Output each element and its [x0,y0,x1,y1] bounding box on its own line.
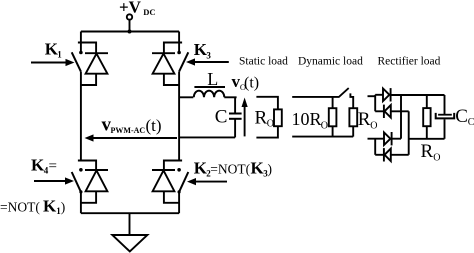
svg-text:3: 3 [206,51,211,61]
switch K4 blade [72,172,81,192]
svg-text:R: R [255,108,268,129]
wire K1 bottom bracket [81,74,96,85]
svg-text:(t): (t) [244,75,259,92]
svg-text:Rectifier load: Rectifier load [378,56,441,68]
resistor 10RO [329,108,337,126]
wire dynamic load top rail [292,97,339,108]
DC supply terminal [127,14,132,19]
svg-text:1: 1 [57,50,62,60]
wire rectifier AC2 stub [368,138,385,140]
wire rectifier AC2 vertical [374,139,376,155]
node K2 lower contact [178,190,181,193]
wire inductor to C node [224,96,236,98]
label =NOT(K1) [0,197,65,217]
resistor RO dynamic [349,108,357,126]
arrow K3 gate [186,58,229,65]
diode D3 [384,132,401,145]
switch K1 blade [72,52,81,71]
wire ground stub [129,213,131,235]
capacitor C [229,97,242,137]
arrow vO voltage [242,98,248,137]
wire terminal to top rail [129,20,131,32]
wire K2 top bracket [164,161,182,171]
wire rectifier positive rail [391,94,445,96]
diode K3 antiparallel [152,53,175,73]
svg-text:=NOT(: =NOT( [0,200,40,215]
diode K1 antiparallel [85,53,108,73]
wire K3 bottom bracket [164,74,179,85]
wire D2-D4 anode drop [408,111,410,155]
svg-text:C: C [468,117,474,128]
svg-text:O: O [433,153,440,164]
svg-text:R: R [358,109,371,130]
capacitor CC [436,95,455,139]
arrow K2 gate [187,178,227,185]
inductor L [194,91,225,98]
wire top rail [81,31,179,33]
wire bottom rail [81,212,179,214]
wire rectifier AC1 vertical [374,95,376,112]
resistor RO rectifier [423,95,430,139]
svg-text:O: O [267,119,274,130]
wire K4 bottom bracket [81,191,96,203]
label CC [455,106,474,128]
svg-text:PWM-AC: PWM-AC [111,126,146,135]
wire K4 top bracket [78,161,96,171]
label K2=NOT(K3) [194,159,272,179]
node top rail center [128,30,132,34]
inductor L core bar [194,86,225,88]
label RO rectifier [421,141,441,164]
label vO(t) [232,72,260,92]
switch K3 blade [179,52,188,71]
label 10RO [292,109,329,132]
node K1 upper contact [79,51,83,55]
wire static load top stub [256,97,278,110]
arrow K1 gate [31,59,75,66]
node K4 lower contact [79,190,82,193]
wire C return to right leg [179,136,235,138]
wire left leg upper [80,32,82,53]
label +VDC [119,0,156,17]
wire dynamic load bottom rail [292,126,353,136]
svg-text:R: R [421,141,434,162]
resistor RO static [274,109,282,126]
node K3 upper contact [177,51,181,55]
svg-text:(t): (t) [146,116,162,135]
arrow K4 gate [34,177,74,184]
wire static load bottom stub [256,126,278,137]
svg-text:Static load: Static load [239,56,288,68]
wire rectifier negative rail [409,138,445,140]
label K1 [45,40,63,60]
diode D4 [375,148,409,161]
switch dynamic load blade [339,88,348,97]
diode K2 antiparallel [152,170,175,191]
diode K4 antiparallel [85,170,108,191]
svg-text:): ) [61,200,66,215]
svg-text:=: = [49,159,57,175]
label K4= [31,156,57,176]
label vPWM-AC(t) [102,115,162,136]
svg-text:O: O [321,121,328,132]
ground [112,235,147,252]
svg-text:C: C [215,107,228,128]
wire right leg middle [178,72,180,161]
arrow vPWM-AC voltage [85,134,178,141]
wire rectifier AC1 stub [368,95,376,97]
label RO static [255,108,275,130]
wire midpoint to inductor [179,96,193,98]
wire right leg lower [178,192,180,213]
svg-text:C: C [455,106,468,127]
svg-text:K: K [43,197,57,216]
label K3 [194,40,212,61]
wire left leg middle [80,72,82,161]
wire left leg lower [80,192,82,213]
svg-text:10R: 10R [292,109,322,129]
node K2 upper contact [177,168,181,172]
switch K2 blade [179,172,188,192]
svg-text:DC: DC [143,7,155,17]
label RO dynamic [358,109,378,132]
svg-text:L: L [207,69,218,89]
wire K3 top bracket [164,43,182,54]
svg-text:Dynamic load: Dynamic load [298,56,363,68]
svg-text:): ) [268,162,273,177]
wire right leg upper [178,32,180,53]
svg-text:=NOT(: =NOT( [210,162,250,177]
wire K2 bottom bracket [164,191,179,203]
svg-text:O: O [370,121,377,132]
wire D3 cathode riser [400,95,402,139]
node K4 upper contact [79,168,83,172]
switch dynamic load contact [350,93,353,108]
wire K1 top bracket [78,43,96,54]
diode D1 [375,88,390,101]
diode D2 [375,105,409,118]
